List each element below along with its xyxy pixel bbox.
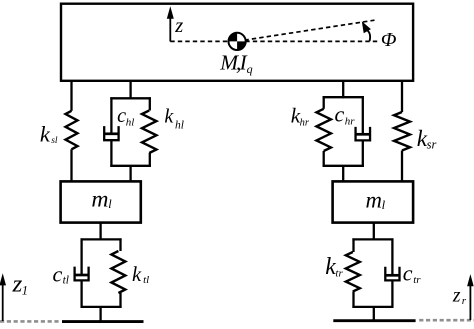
svg-text:hl: hl — [126, 117, 135, 129]
svg-text:hl: hl — [175, 120, 184, 132]
wire spring k_sl to mass m_l — [70, 149, 72, 181]
label k_sr — [417, 126, 437, 152]
label zr — [452, 286, 467, 307]
label c_tr — [403, 260, 421, 286]
label m_l left — [91, 187, 112, 213]
wire bracket bottom to mass m_l — [129, 166, 131, 182]
spring k_tr — [346, 252, 360, 292]
svg-text:z: z — [452, 286, 461, 307]
svg-text:tl: tl — [63, 274, 69, 286]
svg-text:hr: hr — [300, 117, 310, 128]
damper c_tl — [74, 238, 89, 308]
wire right tire bracket to ground — [373, 307, 375, 321]
ground contact left — [62, 320, 144, 323]
right tire bracket bottom bar — [352, 306, 393, 308]
wire spring k_tl to bracket bottom — [119, 293, 121, 308]
svg-text:tr: tr — [413, 274, 421, 286]
label k_tl — [132, 264, 149, 286]
svg-text:c: c — [403, 260, 413, 285]
label m_l right — [366, 188, 386, 213]
road profile dashed line right — [419, 319, 474, 322]
spring k_hr — [316, 109, 331, 151]
svg-text:hr: hr — [345, 116, 356, 128]
label c_tl — [53, 261, 69, 286]
wire bracket to spring k_tl — [119, 238, 121, 251]
ground contact right — [333, 319, 415, 322]
svg-text:c: c — [117, 105, 126, 127]
label k_tr — [325, 254, 343, 280]
label k_hl — [164, 106, 184, 132]
spring k_sl — [66, 111, 78, 150]
svg-text:sl: sl — [51, 136, 58, 146]
label c_hr — [335, 101, 356, 127]
sprung mass body M,Iq — [61, 4, 413, 81]
spring k_hl — [142, 111, 157, 154]
damper c_hr — [355, 96, 371, 167]
svg-text:q: q — [247, 62, 253, 76]
wire spring k_sr to mass m_l right — [401, 151, 403, 182]
wire rect to spring k_sl — [70, 80, 72, 111]
svg-text:Φ: Φ — [381, 29, 397, 51]
wire left tire bracket to ground — [99, 307, 101, 322]
svg-text:m: m — [366, 188, 382, 213]
unsprung mass m_l left — [61, 181, 141, 222]
horizontal reference dashed line — [170, 40, 377, 42]
wire mass m_l right to right tire bracket — [373, 223, 375, 241]
right shock bracket bottom bar — [323, 165, 364, 167]
wire bracket bottom to mass m_l right — [342, 166, 344, 182]
wire bracket to spring k_hr — [323, 96, 325, 109]
svg-text:l: l — [108, 197, 112, 211]
wire rect to right shock bracket — [342, 80, 344, 98]
wire spring k_hr to bracket bottom — [323, 151, 325, 167]
svg-text:r: r — [462, 295, 467, 307]
svg-text:k: k — [40, 121, 51, 146]
right shock bracket top bar — [323, 96, 364, 98]
right tire bracket top bar — [352, 238, 393, 240]
svg-text:1: 1 — [22, 283, 28, 297]
zr arrow — [467, 274, 474, 320]
svg-text:k: k — [132, 264, 142, 286]
label k_hr — [291, 104, 310, 129]
wire rect to left shock bracket — [129, 80, 131, 99]
wire bracket to spring k_hl — [149, 97, 151, 110]
left shock bracket bottom bar — [110, 165, 151, 167]
spring k_tl — [111, 251, 125, 293]
label z1 — [11, 272, 28, 298]
svg-text:z: z — [174, 15, 183, 37]
pitched axis dashed line — [237, 20, 375, 41]
label M,Iq — [219, 51, 252, 76]
wire spring k_tr to bracket bottom — [352, 292, 354, 309]
svg-text:tr: tr — [335, 267, 343, 279]
wire bracket to spring k_tr — [352, 238, 354, 252]
wire spring k_hl to bracket bottom — [149, 153, 151, 167]
svg-text:c: c — [53, 261, 63, 286]
left shock bracket top bar — [110, 97, 151, 99]
damper c_tr — [385, 238, 400, 308]
wire mass m_l to left tire bracket — [99, 223, 101, 241]
left tire bracket bottom bar — [81, 306, 122, 308]
spring k_sr — [394, 112, 410, 151]
label k_sl — [40, 121, 58, 146]
z axis arrow — [167, 6, 174, 41]
svg-text:sr: sr — [427, 138, 437, 152]
svg-text:l: l — [382, 198, 386, 212]
z1 arrow — [0, 273, 6, 321]
damper c_hl — [104, 97, 119, 167]
svg-text:m: m — [91, 187, 108, 213]
svg-text:tl: tl — [143, 274, 149, 286]
center of mass symbol — [229, 33, 246, 50]
wire rect to spring k_sr — [401, 80, 403, 112]
svg-text:k: k — [164, 106, 174, 128]
road profile dashed line left — [0, 320, 61, 323]
unsprung mass m_l right — [333, 181, 414, 222]
angle arc arrow — [362, 21, 371, 41]
left tire bracket top bar — [81, 238, 122, 240]
svg-text:c: c — [335, 101, 345, 126]
label c_hl — [117, 105, 134, 128]
